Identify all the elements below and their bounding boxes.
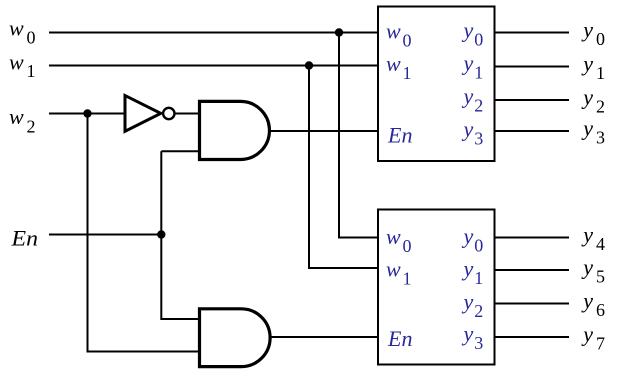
svg-text:y: y: [581, 17, 593, 42]
svg-text:w: w: [386, 257, 401, 282]
svg-text:y: y: [581, 51, 593, 76]
svg-text:0: 0: [403, 31, 412, 51]
svg-text:1: 1: [474, 63, 483, 83]
svg-text:En: En: [10, 225, 38, 250]
svg-text:w: w: [9, 50, 24, 75]
svg-text:2: 2: [474, 96, 483, 116]
svg-text:En: En: [387, 326, 412, 351]
svg-text:y: y: [462, 321, 474, 346]
svg-text:w: w: [9, 16, 24, 41]
svg-text:y: y: [581, 288, 593, 313]
svg-text:y: y: [462, 256, 474, 281]
svg-text:w: w: [386, 19, 401, 44]
svg-text:y: y: [581, 222, 593, 247]
svg-text:1: 1: [403, 269, 412, 289]
svg-text:4: 4: [596, 234, 605, 254]
svg-text:3: 3: [474, 129, 483, 149]
svg-text:y: y: [462, 117, 474, 142]
svg-text:1: 1: [27, 61, 36, 81]
svg-text:3: 3: [596, 128, 605, 148]
svg-text:1: 1: [403, 63, 412, 83]
svg-text:y: y: [462, 51, 474, 76]
svg-text:En: En: [387, 123, 412, 148]
svg-text:7: 7: [596, 334, 605, 354]
svg-text:0: 0: [27, 28, 36, 48]
svg-text:0: 0: [474, 236, 483, 256]
svg-text:w: w: [386, 51, 401, 76]
svg-text:0: 0: [403, 236, 412, 256]
svg-text:0: 0: [596, 29, 605, 49]
svg-text:y: y: [462, 18, 474, 43]
svg-text:w: w: [9, 104, 24, 129]
svg-text:y: y: [462, 84, 474, 109]
svg-text:2: 2: [596, 97, 605, 117]
svg-text:2: 2: [474, 301, 483, 321]
svg-text:y: y: [581, 322, 593, 347]
svg-text:5: 5: [596, 267, 605, 287]
svg-text:y: y: [581, 116, 593, 141]
svg-text:y: y: [462, 224, 474, 249]
svg-text:2: 2: [27, 117, 36, 137]
svg-text:y: y: [581, 255, 593, 280]
svg-text:1: 1: [474, 268, 483, 288]
svg-text:y: y: [581, 85, 593, 110]
svg-text:0: 0: [474, 30, 483, 50]
svg-text:1: 1: [596, 63, 605, 83]
svg-text:3: 3: [474, 333, 483, 353]
svg-text:w: w: [386, 224, 401, 249]
svg-text:6: 6: [596, 300, 605, 320]
svg-text:y: y: [462, 289, 474, 314]
